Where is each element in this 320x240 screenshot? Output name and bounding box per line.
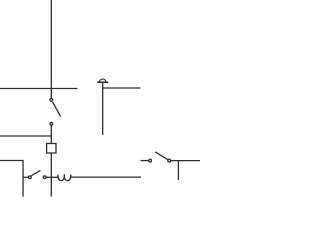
wire stub to S3 [141,160,149,162]
wire L1 to right open end [72,176,141,178]
wire branch right from buzzer lead [103,87,141,89]
wire buzzer lead down [102,83,104,135]
wire vertical feed from top [50,0,52,98]
wire branch down from right bus [177,161,179,180]
wire S1 to R1 [50,125,52,143]
wire stub to S2 [23,176,28,178]
wire S3 to right edge [171,160,200,162]
wire top horizontal bus [0,88,78,90]
wire left branch to node [0,135,52,137]
buzzer BZ1 [97,79,108,82]
wire S2 to L1 [46,176,57,178]
inductor L1 [57,174,73,180]
wire R1 down [50,153,52,197]
resistor R1 [47,144,56,154]
switch S2 [29,170,46,178]
switch S3 [149,152,171,162]
switch S1 [50,99,61,126]
wire left L-shaped [0,161,23,197]
